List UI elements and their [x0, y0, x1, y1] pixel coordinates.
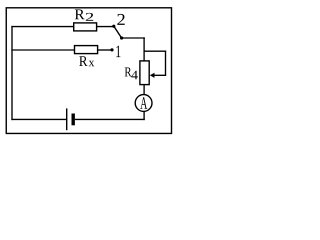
label node '2' — [117, 14, 124, 25]
wire: pivot to corner above R4 — [122, 37, 145, 39]
wire: bottom horizontal, battery to ammeter corner — [75, 118, 145, 120]
node 1 dot — [110, 48, 113, 51]
wire: top horizontal from left wire to R2 — [11, 26, 74, 28]
wire: vertical down to R4 top — [143, 37, 145, 61]
label R2 sub '2' — [86, 13, 93, 21]
label node '1' — [116, 46, 120, 58]
wire: left vertical — [11, 26, 13, 120]
node 2 dot — [112, 25, 115, 28]
label R4 sub '4' — [131, 71, 138, 80]
rheostat R4 — [140, 61, 149, 85]
wire: wiper horizontal to arrow — [154, 74, 167, 76]
wire: R4 bottom to ammeter — [143, 85, 145, 96]
label R4 'R' — [125, 67, 132, 76]
battery long thin plate — [66, 108, 68, 130]
ammeter letter 'A' — [140, 97, 147, 108]
label Rx 'R' — [79, 56, 87, 66]
wire: R2 to node 2 — [97, 26, 114, 28]
resistor R2 — [74, 23, 97, 31]
wire: ammeter bottom down — [143, 111, 145, 120]
wire: Rx horizontal from left wire — [11, 49, 74, 51]
battery short thick plate — [71, 114, 74, 126]
switch blade from node 2 to pivot — [115, 27, 122, 38]
resistor Rx — [75, 46, 98, 54]
wire: bottom horizontal, left wire to battery — [11, 118, 66, 120]
wiper arrowhead — [150, 73, 155, 78]
switch pivot dot — [120, 36, 123, 39]
wire: wiper right vertical — [165, 51, 167, 76]
wire: Rx to node 1 — [98, 49, 112, 51]
wire: wiper branch horizontal — [144, 50, 166, 52]
label R2 'R' — [75, 10, 85, 20]
ammeter A — [135, 95, 152, 112]
label Rx sub 'x' — [89, 61, 95, 66]
